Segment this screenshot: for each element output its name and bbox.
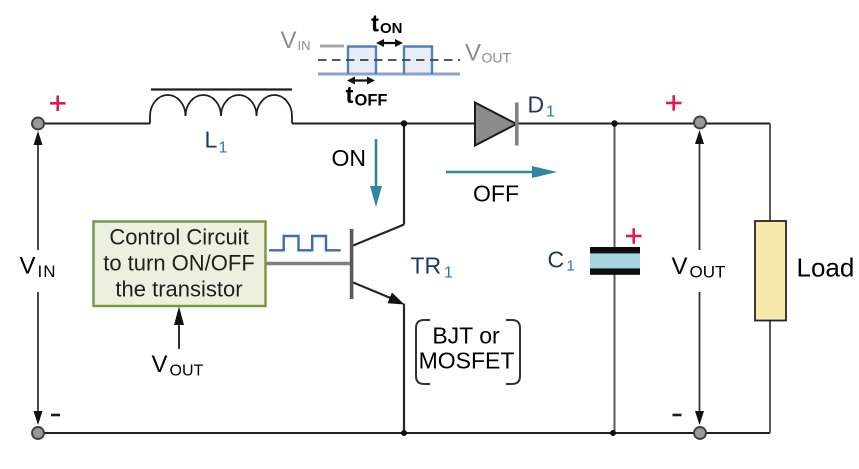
svg-text:OUT: OUT (482, 50, 512, 66)
svg-text:IN: IN (298, 38, 311, 53)
svg-text:Load: Load (797, 253, 855, 283)
svg-text:OUT: OUT (690, 263, 726, 282)
svg-text:V: V (152, 351, 168, 378)
svg-text:OFF: OFF (473, 181, 519, 207)
svg-text:t: t (346, 82, 354, 109)
svg-text:OUT: OUT (170, 363, 204, 380)
svg-text:V: V (20, 253, 36, 280)
svg-text:t: t (371, 11, 379, 38)
svg-text:MOSFET: MOSFET (419, 348, 515, 374)
svg-text:V: V (672, 253, 688, 280)
svg-text:Control Circuit: Control Circuit (109, 225, 248, 250)
svg-text:OFF: OFF (355, 92, 388, 110)
svg-text:BJT or: BJT or (432, 323, 500, 349)
svg-text:V: V (281, 27, 297, 54)
svg-text:D: D (528, 92, 545, 118)
svg-text:1: 1 (546, 104, 555, 121)
svg-text:to turn ON/OFF: to turn ON/OFF (103, 251, 255, 276)
svg-text:the transistor: the transistor (115, 277, 242, 302)
svg-text:IN: IN (38, 262, 57, 281)
svg-text:1: 1 (219, 140, 228, 157)
svg-text:1: 1 (567, 258, 575, 275)
svg-text:ON: ON (332, 145, 367, 171)
svg-text:L: L (205, 127, 218, 153)
svg-text:ON: ON (380, 20, 403, 37)
svg-text:V: V (465, 40, 481, 67)
svg-text:C: C (548, 247, 565, 273)
svg-text:1: 1 (444, 265, 453, 282)
svg-text:TR: TR (411, 253, 442, 279)
